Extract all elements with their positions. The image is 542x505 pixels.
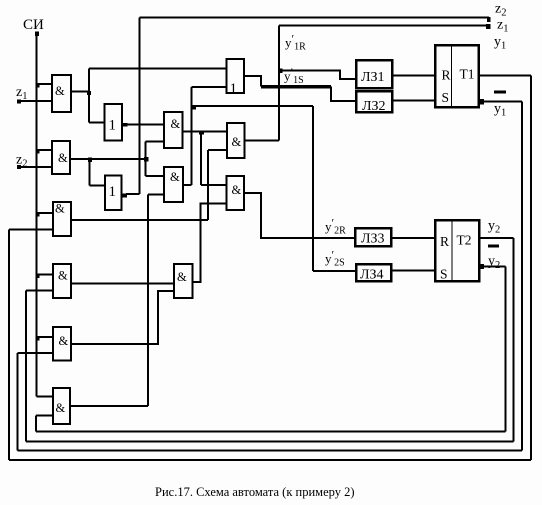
wire T2 y2-bar output — [484, 266, 506, 268]
wire T2 y2 output — [479, 237, 514, 239]
flip-flop T2 divider — [452, 220, 453, 281]
wire G6 output — [70, 405, 148, 407]
wire ЛЗ2 to T1 S — [392, 100, 435, 102]
wire G6 to G8 — [148, 194, 164, 196]
and-gate G5 — [53, 327, 71, 361]
wire y2-bar feedback down — [505, 267, 507, 432]
or-gate D2 output square — [122, 123, 128, 127]
wire y2 feedback up — [25, 291, 27, 442]
input terminal z1 square — [17, 100, 21, 104]
wire y2 feedback down — [513, 238, 515, 442]
svg-text:СИ: СИ — [23, 17, 44, 33]
junction СИ-G1 — [35, 83, 39, 87]
wire net X to delay ЛЗ4 — [313, 270, 356, 272]
svg-text:S: S — [442, 90, 450, 105]
wire y2-bar feedback up — [35, 416, 37, 432]
wire y1-bar feedback down — [521, 102, 523, 451]
wire СИ to G2 — [37, 149, 53, 151]
svg-text:S: S — [440, 267, 448, 282]
or-gate D1 — [227, 59, 245, 93]
wire G3 output — [71, 219, 208, 221]
svg-text:ЛЗ2: ЛЗ2 — [362, 99, 386, 114]
wire node A vertical — [88, 69, 90, 123]
wire y1S to ЛЗ2 — [331, 87, 356, 102]
svg-text:&: & — [171, 117, 181, 131]
wire СИ to G4 — [37, 274, 54, 276]
svg-text:&: & — [170, 170, 180, 184]
svg-text:&: & — [59, 334, 69, 348]
wire z1 input — [19, 100, 52, 102]
wire y1S thick — [261, 85, 331, 89]
wire G6 output up — [147, 195, 149, 407]
input terminal z2 square — [17, 165, 21, 169]
z2 net end square — [487, 17, 491, 22]
wire СИ to G5 — [37, 336, 54, 338]
delay ЛЗ2 — [356, 91, 392, 112]
wire z2 net top — [140, 17, 490, 19]
or-gate D3 output square — [122, 194, 128, 198]
svg-text:ЛЗ4: ЛЗ4 — [360, 268, 384, 283]
wire y2 to G4 — [26, 290, 53, 292]
svg-text:T2: T2 — [457, 233, 472, 248]
wire y1 feedback bottom — [9, 459, 531, 461]
svg-text:&: & — [232, 183, 242, 197]
T1 inverse output square — [479, 99, 485, 105]
wire G4 output — [71, 283, 174, 285]
wire z1 net vertical — [278, 26, 280, 141]
label y2-bar overline — [488, 245, 499, 248]
wire ЛЗ3 to T2 R — [391, 237, 435, 239]
wire G2 output — [70, 158, 146, 160]
wire y2-bar to G6 — [36, 415, 53, 417]
delay ЛЗ3 — [355, 228, 391, 246]
svg-text:&: & — [55, 202, 65, 216]
junction node B — [88, 158, 92, 162]
svg-text:1: 1 — [109, 184, 117, 200]
label y1-bar overline — [494, 91, 506, 94]
wire G1 output — [71, 91, 89, 93]
wire net X horizontal y2S — [192, 105, 314, 107]
wire node D to G11 — [201, 184, 227, 186]
wire net X to D1 — [192, 86, 227, 88]
СИ terminal square — [35, 32, 39, 37]
and-gate G3 — [53, 202, 71, 236]
wire node D down — [200, 132, 202, 186]
wire y1 feedback up — [8, 230, 10, 461]
wire T1 y1-bar output — [484, 101, 522, 103]
svg-text:&: & — [56, 401, 66, 415]
and-gate G7 — [164, 112, 183, 148]
svg-text:Рис.17. Схема автомата (к прим: Рис.17. Схема автомата (к примеру 2) — [155, 485, 355, 499]
wire T1 y1 output — [479, 75, 532, 77]
and-gate G4 — [53, 264, 71, 298]
wire ЛЗ4 to T2 S — [391, 270, 435, 272]
svg-text:&: & — [58, 151, 68, 165]
and-gate G1 — [52, 75, 71, 112]
and-gate G9 — [174, 264, 193, 298]
wire y1-bar feedback up — [17, 353, 19, 451]
svg-text:R: R — [442, 68, 451, 83]
svg-text:ЛЗ1: ЛЗ1 — [361, 70, 385, 85]
svg-text:&: & — [55, 84, 65, 98]
or-gate D3 — [105, 176, 122, 211]
wire node C vertical — [145, 142, 147, 177]
junction СИ-G5 — [35, 336, 39, 340]
z1 net end square — [486, 24, 491, 29]
junction СИ-G2 — [35, 149, 39, 153]
junction node F — [278, 68, 283, 73]
wire G10 output — [245, 140, 280, 142]
wire net X vertical — [191, 87, 193, 185]
wire node B to D3 — [90, 185, 106, 187]
wire z2 input — [19, 166, 52, 168]
wire node A to or-gate D1 — [89, 68, 227, 70]
or-gate D2 — [105, 104, 123, 141]
and-gate G8 — [164, 167, 183, 202]
wire СИ vertical bus — [36, 34, 38, 397]
svg-text:&: & — [232, 135, 242, 149]
delay ЛЗ1 — [356, 60, 392, 88]
and-gate G11 — [227, 176, 245, 210]
svg-text:&: & — [177, 270, 187, 284]
svg-text:T1: T1 — [460, 67, 475, 82]
wire СИ to G6 — [37, 396, 54, 398]
wire y2 feedback bottom — [26, 441, 514, 443]
wire G5 output elbow — [71, 291, 174, 344]
wire G3 to G10 — [208, 149, 227, 151]
wire G3 output up — [207, 150, 209, 220]
wire y1R elbow — [279, 71, 356, 80]
wire СИ to G3 — [37, 212, 54, 214]
svg-text:1: 1 — [230, 81, 238, 97]
wire D1 output elbow — [244, 76, 261, 87]
wire z1 net top — [279, 25, 488, 27]
svg-text:ЛЗ3: ЛЗ3 — [361, 232, 385, 247]
junction node C — [144, 157, 149, 162]
wire D2 output to G7 — [126, 124, 164, 126]
svg-text:&: & — [58, 269, 68, 283]
wire node C to G7 input — [146, 141, 165, 143]
and-gate G6 — [53, 388, 70, 424]
wire net X down — [312, 106, 314, 271]
and-gate G10 — [227, 123, 245, 158]
flip-flop T2 — [435, 220, 479, 281]
junction СИ-G3 — [35, 212, 39, 216]
wire СИ to G1 — [37, 83, 53, 85]
T2 inverse output square — [479, 264, 484, 269]
wire z2 net vertical — [139, 18, 141, 195]
wire y2-bar feedback bottom — [36, 431, 506, 433]
wire y1 to G3 — [9, 229, 53, 231]
junction node A — [87, 91, 91, 95]
wire D3 output — [126, 193, 140, 195]
wire y1-bar feedback bottom — [18, 450, 523, 452]
wire node A to or-gate D2 — [89, 122, 105, 124]
wire ЛЗ1 to T1 R — [392, 75, 435, 77]
junction node E — [191, 105, 196, 109]
and-gate G2 — [52, 141, 70, 174]
wire G7 output — [183, 131, 228, 133]
wire node C to G8 input — [146, 175, 165, 177]
wire G8 output — [183, 184, 192, 186]
wire G11 output to ЛЗ3 — [244, 193, 355, 238]
flip-flop T1 — [435, 45, 479, 107]
wire y1-bar to G5 — [18, 352, 54, 354]
junction СИ-G4 — [35, 274, 39, 278]
junction node D — [199, 131, 204, 135]
svg-text:1: 1 — [109, 118, 117, 134]
wire G9 output elbow — [193, 204, 227, 283]
delay ЛЗ4 — [356, 264, 391, 281]
svg-text:R: R — [440, 234, 449, 249]
wire node B down — [89, 159, 91, 186]
wire y1 feedback down — [530, 76, 532, 461]
flip-flop T1 divider — [451, 45, 452, 107]
